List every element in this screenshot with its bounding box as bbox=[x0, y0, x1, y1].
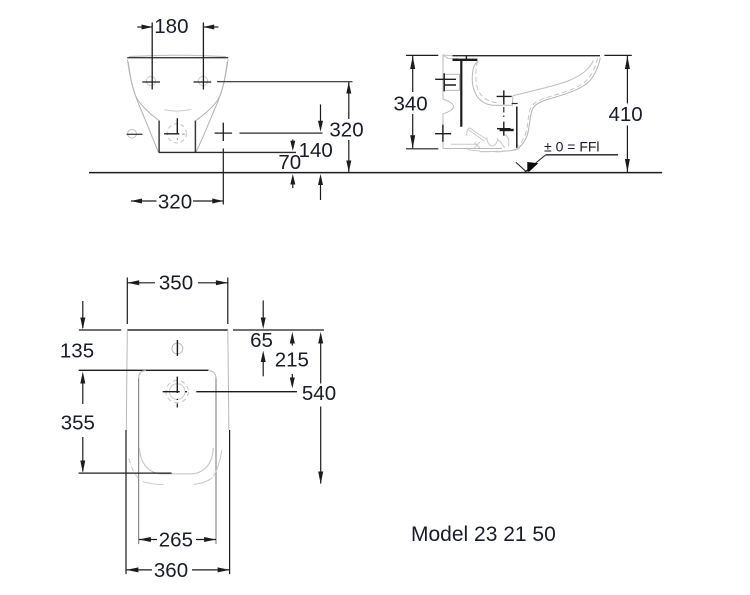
dim 360 left extension bbox=[125, 430, 127, 574]
180 extension line left bbox=[151, 23, 153, 90]
svg-text:320: 320 bbox=[158, 191, 192, 214]
svg-text:Model 23 21 50: Model 23 21 50 bbox=[411, 523, 556, 546]
drain cross bbox=[164, 118, 179, 134]
datum filled triangle bbox=[527, 162, 538, 172]
trap outlet pipe curve bbox=[505, 135, 509, 147]
hidden bottom arc left descent dashed bbox=[129, 459, 141, 481]
left dim stem above 473 with down arrow bbox=[82, 437, 84, 472]
svg-text:± 0 = FFl: ± 0 = FFl bbox=[544, 139, 600, 155]
svg-text:355: 355 bbox=[61, 412, 95, 435]
PLAN VIEW bbox=[60, 272, 556, 582]
svg-text:410: 410 bbox=[608, 103, 642, 126]
plan outline left side bbox=[126, 330, 127, 430]
datum diagonal right bbox=[525, 155, 546, 172]
bowl rim interior line bbox=[513, 61, 593, 96]
spout right side bbox=[194, 121, 196, 153]
left dim column stem top bbox=[82, 301, 84, 328]
left mounting cross bbox=[142, 81, 160, 83]
frame top tick bbox=[465, 56, 467, 60]
svg-text:350: 350 bbox=[159, 272, 193, 295]
side fixing cross lower bbox=[435, 125, 451, 142]
svg-text:540: 540 bbox=[302, 382, 336, 405]
svg-text:320: 320 bbox=[329, 119, 363, 142]
right mounting cross bbox=[194, 81, 212, 83]
supply cross right bbox=[215, 123, 233, 141]
dim 65 up arrow below bbox=[261, 351, 266, 363]
side fixing cross upper bbox=[435, 73, 456, 91]
dim 320 lower line bbox=[348, 140, 350, 172]
dim 340 top tick bbox=[406, 54, 438, 56]
front view top edge bbox=[127, 57, 228, 59]
dim 410 top tick bbox=[604, 54, 631, 56]
inner bowl back J-curve bbox=[472, 62, 513, 106]
keyhole circle bbox=[172, 343, 183, 354]
spout left side bbox=[158, 121, 160, 153]
basin bottom curve bbox=[140, 448, 214, 474]
left dim up arrow below 370 bbox=[80, 372, 85, 384]
left outlet dash bbox=[127, 133, 143, 135]
inner bowl back J-curve inner line bbox=[476, 61, 497, 103]
side view top edge bbox=[453, 55, 601, 57]
trap diagonal top curl bbox=[467, 128, 470, 137]
tap hole cross horizontal and 540 leader bbox=[163, 391, 297, 393]
dim 350 line right with arrow bbox=[198, 282, 228, 284]
left dim down arrow to top edge bbox=[80, 318, 85, 330]
reference line 135 level bbox=[79, 369, 209, 371]
datum underline bbox=[546, 154, 618, 156]
mounting frame vertical dark bbox=[460, 60, 462, 127]
side supply cross lower bbox=[497, 122, 511, 136]
dim 360 line left with arrow bbox=[127, 569, 153, 571]
dim 265 line left with arrow bbox=[139, 539, 157, 541]
wall plate bottom bbox=[443, 148, 502, 150]
fixing lug rectangle bbox=[443, 74, 460, 90]
dim 320 down arrow bbox=[346, 161, 351, 173]
tap hole inner circle bbox=[169, 384, 185, 400]
outer bowl profile bbox=[480, 58, 600, 152]
plan top edge left extension bbox=[79, 329, 121, 331]
svg-text:70: 70 bbox=[278, 151, 301, 174]
svg-text:65: 65 bbox=[250, 329, 273, 352]
trap squiggle X bbox=[475, 142, 481, 148]
supply vertical extension to dim bbox=[222, 148, 224, 204]
outer bowl profile dashed inner bbox=[517, 58, 598, 146]
basin right side / 265 extension bbox=[215, 379, 217, 545]
dim 140 upper arrow bbox=[320, 104, 322, 126]
dim 180 right arrow bbox=[203, 25, 214, 30]
svg-text:135: 135 bbox=[60, 340, 94, 363]
supply centerline dash-dot bbox=[503, 107, 505, 117]
dim 350 left extension bbox=[126, 278, 128, 325]
hidden bottom arc right dash bbox=[194, 478, 213, 485]
plan top edge right extension bbox=[233, 329, 324, 331]
dim 70 lower arrow bbox=[292, 183, 294, 188]
trap horizontal feed line bbox=[451, 143, 476, 145]
dim 540 line upper with up arrow bbox=[318, 332, 323, 344]
trap squiggle diagonal pair bbox=[468, 128, 487, 141]
front view outer right silhouette bbox=[196, 60, 228, 153]
tap centerline dot and dash bbox=[176, 399, 178, 408]
svg-text:140: 140 bbox=[299, 139, 333, 162]
hidden bottom arc left dash bbox=[143, 481, 164, 484]
svg-text:360: 360 bbox=[154, 559, 188, 582]
dim 215 down arrow bbox=[291, 374, 293, 382]
reference line 355 level bbox=[79, 472, 172, 474]
dim 320 vertical line upper bbox=[348, 82, 350, 119]
front view top rim light arc bbox=[129, 55, 226, 56]
plan top edge bbox=[127, 329, 228, 331]
wall plate left edge with notch bbox=[443, 56, 454, 149]
dim 410 line upper with up arrow bbox=[626, 56, 628, 104]
drain step top tick bbox=[512, 103, 518, 105]
dim 215 up arrow bbox=[290, 332, 295, 344]
dim 360 right extension bbox=[229, 430, 231, 574]
dim 70 upper arrow bbox=[292, 139, 294, 145]
reference line B supply bbox=[240, 132, 323, 134]
svg-text:215: 215 bbox=[275, 349, 309, 372]
FRONT VIEW bbox=[89, 15, 662, 214]
plan outline right side bbox=[228, 330, 229, 430]
180 extension line right bbox=[202, 23, 204, 90]
trap squiggle U bbox=[487, 138, 498, 147]
trap U right connector bbox=[498, 140, 505, 149]
right mounting hole circle bbox=[198, 76, 207, 85]
dim 540 line lower with down arrow bbox=[320, 407, 322, 484]
dim 410 line lower with down arrow bbox=[626, 126, 628, 173]
front view inner left curve bbox=[128, 62, 158, 120]
reference line C spout bottom bbox=[159, 151, 297, 153]
SIDE VIEW bbox=[393, 55, 642, 172]
svg-text:265: 265 bbox=[159, 529, 193, 552]
basin left side / 265 extension bbox=[138, 379, 140, 545]
left outlet circle bbox=[128, 129, 137, 138]
left mounting hole circle bbox=[146, 76, 155, 85]
reference line A top holes bbox=[217, 81, 353, 83]
dim 340 bottom tick bbox=[406, 148, 438, 150]
floor line bbox=[89, 172, 662, 174]
side supply cross upper bbox=[497, 90, 512, 104]
dim 265 line right with arrow bbox=[196, 539, 216, 541]
dim 340 line upper with up arrow bbox=[412, 56, 414, 92]
drain centerline dashes bbox=[177, 134, 185, 140]
side supply thick bar bbox=[500, 129, 514, 131]
svg-text:180: 180 bbox=[154, 15, 188, 38]
dim 140 lower arrow bbox=[320, 182, 322, 200]
wall plate top light slant bbox=[443, 55, 460, 59]
svg-text:340: 340 bbox=[393, 93, 427, 116]
hidden bottom arc right rise bbox=[214, 450, 222, 477]
dim 180 left arrow bbox=[142, 25, 153, 30]
dim 320 bottom left arrow bbox=[131, 199, 142, 204]
drain dashed circle bbox=[167, 124, 186, 143]
front view inner right curve bbox=[196, 62, 227, 120]
keyhole vertical line bbox=[176, 340, 178, 356]
front view outer left silhouette bbox=[128, 60, 159, 153]
tap hole cross vertical bbox=[176, 377, 178, 393]
dim 65 down arrow above top edge bbox=[262, 300, 264, 322]
dim 320 bottom line right bbox=[193, 200, 223, 202]
dim 320 up arrow bbox=[346, 82, 351, 94]
datum diagonal left bbox=[516, 162, 527, 172]
dim 320 bottom line left bbox=[131, 200, 157, 202]
dim 320 bottom right arrow bbox=[212, 199, 223, 204]
trap squiggle bottom wave bbox=[466, 147, 520, 152]
dim 350 right extension bbox=[227, 278, 229, 325]
front bowl far rim arc bbox=[165, 109, 192, 111]
dim 350 line left with arrow bbox=[127, 282, 155, 284]
tap hole dashed circle bbox=[166, 380, 188, 402]
dim 340 line lower with down arrow bbox=[412, 114, 414, 148]
mounting frame top thick bar bbox=[453, 59, 478, 61]
dim 360 line right with arrow bbox=[192, 569, 230, 571]
basin top rounded corners bbox=[139, 371, 216, 379]
drain step vertical bbox=[516, 107, 518, 148]
